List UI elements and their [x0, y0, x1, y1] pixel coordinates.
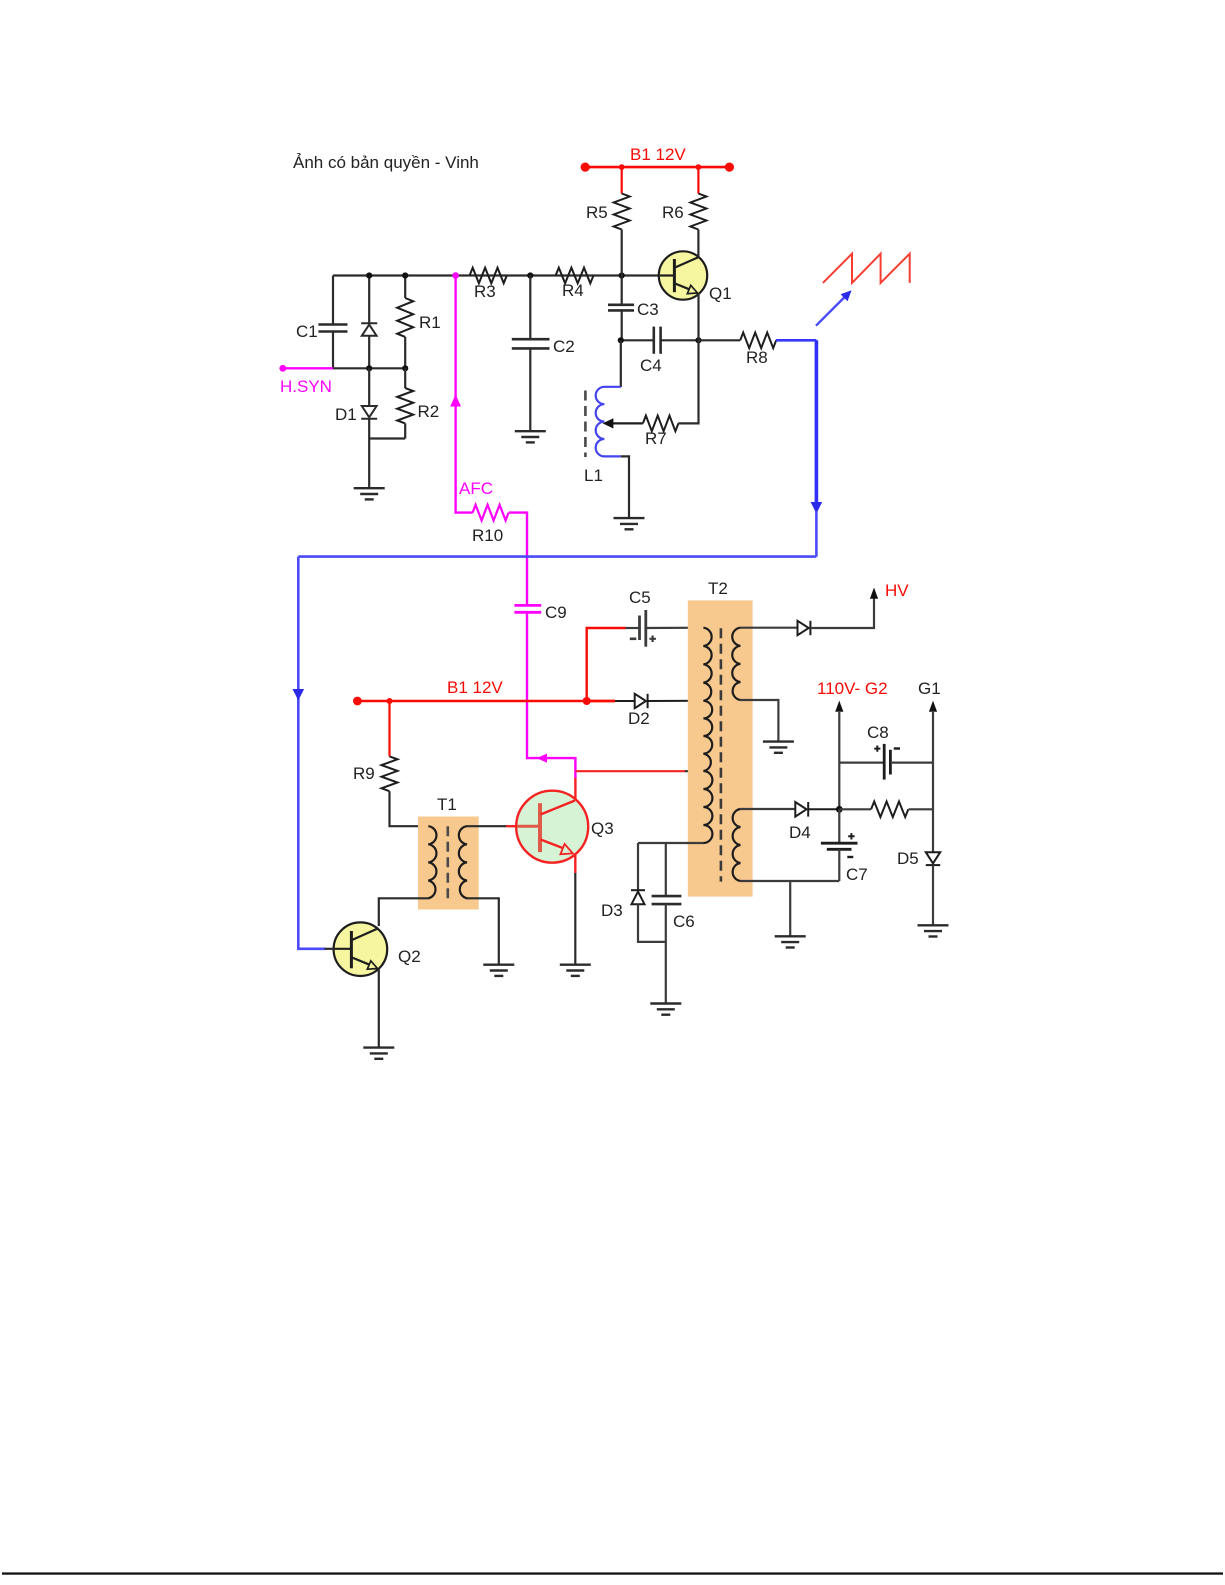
- svg-text:T2: T2: [708, 579, 728, 598]
- wire C1 left branch vertical top: [332, 276, 334, 324]
- wire C7 top stub: [838, 809, 840, 842]
- svg-text:R10: R10: [472, 526, 503, 545]
- svg-text:R3: R3: [474, 282, 496, 301]
- ground below T2 bottom return: [775, 936, 806, 947]
- wire C3 bottom to node row: [621, 310, 623, 340]
- transistor Q1: [659, 251, 707, 299]
- wire Q3 collector red vertical: [574, 778, 576, 800]
- capacitor C7 (polarized horizontal plates): [821, 843, 858, 849]
- svg-text:Q2: Q2: [398, 947, 421, 966]
- svg-text:C5: C5: [629, 588, 651, 607]
- node B1 rail junction dot R6: [696, 164, 702, 170]
- C8 polarity plus sign: [874, 746, 880, 752]
- svg-text:AFC: AFC: [459, 479, 493, 498]
- T1 primary winding (left coil): [428, 826, 436, 898]
- C8 polarity minus sign: [894, 747, 900, 749]
- wire L1 tap arrow line: [609, 422, 643, 424]
- T2 core dashed line: [720, 628, 723, 881]
- wire upper diode branch vertical: [368, 276, 370, 325]
- arrowhead G1 up: [929, 701, 937, 712]
- node B1 rail2 junction dot C5: [583, 697, 591, 705]
- arrowhead HV up: [870, 588, 878, 599]
- wire C2 branch top: [529, 276, 531, 339]
- wire resistor to G1 line: [909, 808, 933, 810]
- wire C5 feed red from rail2: [587, 628, 626, 701]
- wire Q2 emitter to ground: [378, 970, 380, 1048]
- resistor R1: [397, 298, 413, 337]
- svg-text:L1: L1: [584, 466, 603, 485]
- node dot bus at C2 branch: [527, 272, 533, 278]
- wire C6 bottom to ground: [665, 904, 667, 1003]
- node B1 rail2 left terminal dot: [353, 697, 362, 706]
- svg-text:G1: G1: [918, 679, 941, 698]
- svg-text:R6: R6: [662, 203, 684, 222]
- wire D2 feed red from rail2 junction: [587, 700, 615, 702]
- capacitor C6: [652, 896, 682, 904]
- capacitor C3: [608, 305, 634, 311]
- wire R2 bottom stub: [404, 423, 406, 438]
- wire blue feedback bottom horizontal: [298, 555, 816, 558]
- wire T2 primary bottom lead left: [638, 842, 704, 844]
- wire C6 top stub: [665, 843, 667, 896]
- wire C9 bottom magenta drop to AFC corner: [527, 612, 575, 779]
- diode D3 (bar top, triangle up): [631, 890, 645, 904]
- wire Q3 emitter (red then black) to ground: [574, 854, 576, 874]
- svg-text:R2: R2: [418, 402, 440, 421]
- wire D1 anode stub: [368, 368, 370, 406]
- node dot bus at R1 branch: [402, 272, 408, 278]
- svg-text:R7: R7: [645, 429, 667, 448]
- wire upper diode to H.SYN line: [368, 336, 370, 369]
- svg-text:Q3: Q3: [591, 819, 614, 838]
- wire C2 bottom: [529, 348, 531, 431]
- wire R9 to T1 primary top: [390, 791, 429, 826]
- capacitor C2: [512, 339, 550, 348]
- svg-text:R9: R9: [353, 764, 375, 783]
- wire C5 left black stub: [626, 627, 640, 629]
- svg-text:H.SYN: H.SYN: [280, 377, 332, 396]
- inductor L1 (blue coil): [596, 387, 621, 457]
- wire D3 bottom L to C6: [638, 904, 666, 942]
- capacitor C4: [654, 327, 661, 354]
- resistor R5: [614, 194, 630, 230]
- diode D2: [615, 694, 704, 708]
- C5 polarity plus sign: [649, 636, 656, 643]
- wire B1 rail 2 (red): [357, 700, 615, 703]
- wire L1 top connection from node row: [620, 340, 622, 387]
- wire C5 right to T2 top tap: [646, 627, 704, 629]
- resistor G2 filter (unlabeled): [871, 802, 908, 818]
- node B1 rail2 junction dot R9: [387, 698, 393, 704]
- wire AFC vertical (magenta): [456, 276, 473, 513]
- transistor Q3: [516, 791, 588, 863]
- svg-text:C3: C3: [637, 300, 659, 319]
- blue diagonal arrow to sawtooth: [816, 290, 852, 326]
- wire C3 branch from base node: [621, 276, 623, 305]
- diode D1 (triangle down, bar below): [361, 406, 377, 419]
- resistor R9: [382, 756, 398, 791]
- wire R1 bottom stub: [404, 337, 406, 368]
- T2 secondary top winding (right): [732, 628, 740, 700]
- blue arrowhead down on left drop: [293, 689, 305, 701]
- wire blue output drop lower: [815, 511, 818, 557]
- resistor R3: [470, 268, 507, 284]
- svg-text:C2: C2: [553, 337, 575, 356]
- ground below T1 secondary: [483, 965, 514, 976]
- node dot bus at Q1 base / R5 / C3: [619, 272, 625, 278]
- svg-text:D4: D4: [789, 823, 811, 842]
- wire T2 secondary top HV lead: [740, 627, 797, 629]
- svg-text:C4: C4: [640, 356, 662, 375]
- svg-text:R1: R1: [419, 313, 441, 332]
- wire R7 right to emitter node: [678, 340, 698, 423]
- svg-text:Q1: Q1: [709, 284, 732, 303]
- svg-text:B1 12V: B1 12V: [447, 678, 503, 697]
- svg-text:D5: D5: [897, 849, 919, 868]
- capacitor C1: [318, 325, 347, 332]
- svg-text:C6: C6: [673, 912, 695, 931]
- wire D5 to ground: [932, 865, 934, 925]
- resistor R10 (magenta): [473, 505, 509, 521]
- wire node row left to C4: [621, 339, 654, 341]
- wire tap red-to-black stub into T2: [685, 770, 704, 772]
- T2 primary winding (left, 9 bumps with taps): [703, 628, 712, 843]
- node B1 rail left terminal dot: [581, 163, 590, 172]
- ground below C2: [515, 431, 546, 442]
- svg-text:R8: R8: [746, 348, 768, 367]
- wire R5 feed (red): [621, 167, 623, 193]
- wire T2 secondary bottom to D4: [740, 808, 795, 810]
- wire R6 feed (red): [697, 167, 699, 193]
- svg-text:110V- G2: 110V- G2: [817, 679, 888, 698]
- svg-text:C8: C8: [867, 723, 889, 742]
- diode D4: [795, 802, 839, 817]
- wire ground drop T2 bottom: [789, 881, 791, 936]
- wire T1 secondary bottom to ground: [467, 898, 499, 964]
- node dot D4 output: [836, 806, 843, 813]
- C7 polarity plus sign: [848, 833, 854, 839]
- arrowhead magenta pointing left on AFC feed: [537, 754, 547, 763]
- node junction dot diode row: [366, 365, 372, 371]
- wire HV lead: [810, 597, 874, 628]
- svg-text:C1: C1: [296, 322, 318, 341]
- T1 core dashed line: [446, 826, 449, 899]
- wire T1 primary bottom to Q2 collector: [379, 898, 429, 926]
- wire L1 bottom to ground drop: [621, 456, 629, 518]
- wire C8 right lead to G1 line: [890, 761, 933, 763]
- wire T2 secondary bottom lower lead: [740, 880, 839, 882]
- wire C8 left lead: [839, 761, 884, 763]
- wire R5 to base node: [621, 230, 623, 276]
- wire emitter node to R8: [699, 339, 741, 341]
- ground below L1: [614, 518, 645, 529]
- transistor Q2: [334, 922, 388, 976]
- svg-text:D1: D1: [335, 405, 357, 424]
- ground below Q3: [560, 965, 591, 976]
- svg-text:B1 12V: B1 12V: [630, 145, 686, 164]
- svg-text:C9: C9: [545, 603, 567, 622]
- wire blue output drop upper (thick): [815, 340, 819, 504]
- wire D3 drop: [637, 843, 639, 890]
- diode HV rectifier: [798, 621, 811, 635]
- wire R1 top stub: [404, 276, 406, 299]
- svg-text:R5: R5: [586, 203, 608, 222]
- wire blue feedback left drop: [298, 557, 325, 949]
- wire Q3 base red stub: [506, 825, 518, 827]
- bottom page rule: [2, 1572, 1223, 1574]
- ground below D1: [354, 488, 385, 499]
- ground below Q2: [363, 1048, 394, 1059]
- ground below D5: [918, 925, 949, 936]
- wire D1-R2 bottom tie: [368, 419, 370, 489]
- wire B1 rail top (red): [585, 166, 730, 169]
- node junction dot R1 row: [402, 365, 408, 371]
- ground below T2 secondary top: [763, 742, 794, 753]
- arrowhead L1 tap (points left): [603, 418, 614, 428]
- wire R2 top stub: [404, 368, 406, 388]
- T2 secondary bottom winding (right): [733, 809, 741, 881]
- L1 core dashed line: [584, 391, 587, 458]
- wire C7 bottom stub: [838, 849, 840, 881]
- resistor R7: [643, 416, 679, 432]
- wire Q3 collector to T2 primary tap (red): [575, 770, 685, 772]
- wire 110V-G2 arrow stem: [838, 712, 840, 809]
- resistor R2: [397, 388, 413, 423]
- wire C1 bottom: [332, 332, 334, 369]
- ground below C6: [650, 1004, 681, 1015]
- resistor R4: [556, 268, 594, 284]
- wire Q1 emitter vertical: [697, 294, 699, 341]
- C5 polarity minus sign: [630, 638, 637, 641]
- transformer T1 body: [418, 817, 479, 910]
- wire node to filter resistor: [839, 808, 871, 810]
- resistor R8: [740, 333, 776, 349]
- node H.SYN endpoint dot: [279, 365, 286, 372]
- wire H.SYN junction row: [333, 367, 405, 369]
- blue arrowhead down on output drop: [811, 502, 823, 514]
- wire C4 right to emitter node: [661, 339, 699, 341]
- svg-text:Ảnh có bản quyền - Vinh: Ảnh có bản quyền - Vinh: [293, 153, 479, 172]
- node dot C3/L1/C4: [618, 337, 624, 343]
- arrowhead 110V-G2 up: [835, 701, 843, 712]
- wire H.SYN input (magenta): [282, 367, 333, 369]
- svg-text:T1: T1: [437, 795, 457, 814]
- C7 polarity minus sign: [847, 856, 853, 858]
- capacitor C5 (polarized, vertical plates): [640, 610, 646, 647]
- wire R8 to blue corner (blue): [776, 339, 817, 342]
- wire R9 feed (red): [388, 701, 390, 756]
- node dot bus at diode branch: [366, 272, 372, 278]
- node B1 rail right terminal dot: [725, 163, 734, 172]
- wire G1 arrow stem: [932, 712, 934, 852]
- transformer T2 body: [688, 600, 753, 896]
- capacitor C8 (polarized, vertical plates): [884, 744, 890, 780]
- svg-text:D3: D3: [601, 901, 623, 920]
- wire T1 secondary top to Q3 base (black then red): [467, 825, 507, 827]
- wire Q2 base black stub: [325, 948, 335, 950]
- svg-text:HV: HV: [885, 581, 909, 600]
- node B1 rail junction dot R5: [619, 164, 625, 170]
- resistor R6: [690, 194, 706, 230]
- diode D5 (triangle down, bar below): [926, 852, 940, 865]
- sawtooth waveform symbol (red): [823, 254, 910, 283]
- svg-text:R4: R4: [562, 281, 584, 300]
- wire top main bus y=275.5: [333, 274, 658, 276]
- wire R6 to Q1 collector: [697, 230, 699, 258]
- wire R10 to C9 (magenta): [509, 513, 527, 605]
- capacitor C9 (magenta): [514, 605, 541, 612]
- arrowhead AFC up (magenta): [450, 395, 461, 407]
- node dot bus AFC tap (magenta): [452, 272, 459, 279]
- svg-text:C7: C7: [846, 865, 868, 884]
- diode upper clamp (bar on top, triangle up): [361, 323, 377, 336]
- wire T2 secondary top lower lead to ground: [740, 700, 778, 741]
- svg-text:D2: D2: [628, 709, 650, 728]
- T1 secondary winding (right coil): [459, 826, 467, 898]
- node dot Q1 emitter output: [695, 337, 701, 343]
